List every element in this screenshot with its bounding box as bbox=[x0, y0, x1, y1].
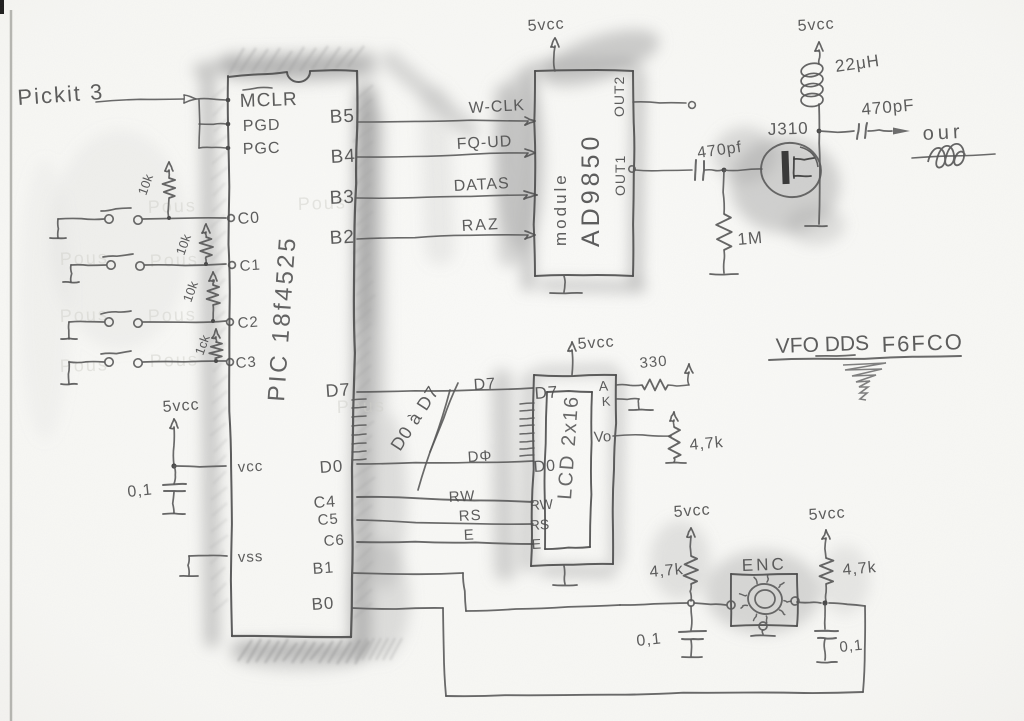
svg-text:E: E bbox=[531, 536, 541, 552]
svg-text:RW: RW bbox=[448, 488, 476, 506]
svg-text:5vcc: 5vcc bbox=[577, 333, 615, 353]
svg-text:RS: RS bbox=[458, 507, 482, 525]
svg-text:D7: D7 bbox=[473, 375, 497, 394]
svg-text:RS: RS bbox=[529, 516, 549, 533]
svg-text:C1: C1 bbox=[239, 257, 261, 275]
svg-text:K: K bbox=[601, 394, 611, 409]
svg-text:C0: C0 bbox=[237, 209, 261, 228]
svg-text:PGD: PGD bbox=[243, 117, 281, 135]
svg-text:Pous: Pous bbox=[59, 354, 109, 376]
svg-text:vcc: vcc bbox=[237, 458, 263, 476]
svg-text:0,1: 0,1 bbox=[636, 630, 663, 650]
svg-text:MCLR: MCLR bbox=[239, 89, 298, 112]
svg-text:vss: vss bbox=[238, 548, 264, 566]
svg-text:B2: B2 bbox=[329, 227, 355, 249]
svg-text:C5: C5 bbox=[317, 511, 339, 529]
svg-text:C3: C3 bbox=[235, 354, 257, 372]
svg-text:0,1: 0,1 bbox=[127, 481, 154, 501]
svg-text:AD9850: AD9850 bbox=[577, 133, 605, 247]
svg-text:OUT1: OUT1 bbox=[612, 155, 628, 196]
svg-text:Pous: Pous bbox=[147, 195, 197, 217]
svg-text:FQ-UD: FQ-UD bbox=[456, 133, 512, 153]
svg-text:A: A bbox=[598, 377, 609, 394]
svg-text:F6FCO: F6FCO bbox=[881, 329, 964, 357]
svg-text:C6: C6 bbox=[323, 532, 345, 550]
svg-text:C4: C4 bbox=[313, 493, 337, 512]
svg-text:VFO DDS: VFO DDS bbox=[775, 332, 869, 358]
svg-text:D0: D0 bbox=[533, 457, 557, 476]
svg-text:B1: B1 bbox=[312, 560, 335, 578]
svg-text:B0: B0 bbox=[311, 593, 335, 614]
svg-text:D0: D0 bbox=[319, 456, 344, 477]
svg-text:ENC: ENC bbox=[741, 554, 787, 575]
svg-text:5vcc: 5vcc bbox=[808, 504, 846, 524]
svg-text:1M: 1M bbox=[737, 228, 764, 249]
svg-text:our: our bbox=[922, 121, 964, 145]
svg-text:B5: B5 bbox=[329, 106, 355, 128]
svg-text:4,7k: 4,7k bbox=[689, 434, 725, 454]
svg-text:4,7k: 4,7k bbox=[649, 561, 685, 581]
svg-text:B4: B4 bbox=[330, 146, 356, 168]
svg-text:J310: J310 bbox=[767, 119, 809, 139]
svg-text:DATAS: DATAS bbox=[453, 175, 510, 195]
svg-text:OUT2: OUT2 bbox=[611, 76, 627, 117]
svg-text:Vo: Vo bbox=[593, 428, 611, 446]
svg-text:330: 330 bbox=[639, 353, 668, 372]
svg-text:W-CLK: W-CLK bbox=[468, 97, 525, 117]
svg-text:D7: D7 bbox=[534, 382, 559, 403]
svg-text:4,7k: 4,7k bbox=[842, 559, 878, 579]
svg-text:C2: C2 bbox=[237, 314, 259, 332]
svg-text:DΦ: DΦ bbox=[467, 447, 493, 466]
svg-text:B3: B3 bbox=[329, 187, 355, 209]
svg-text:5vcc: 5vcc bbox=[673, 501, 711, 521]
svg-text:5vcc: 5vcc bbox=[162, 396, 200, 416]
svg-text:5vcc: 5vcc bbox=[797, 15, 835, 35]
svg-text:module: module bbox=[551, 172, 570, 246]
svg-text:0,1: 0,1 bbox=[839, 637, 865, 656]
svg-text:E: E bbox=[463, 526, 475, 544]
svg-text:PGC: PGC bbox=[243, 140, 281, 158]
svg-text:RW: RW bbox=[529, 496, 554, 513]
svg-text:D7: D7 bbox=[325, 379, 351, 401]
svg-text:RAZ: RAZ bbox=[461, 216, 500, 235]
svg-text:5vcc: 5vcc bbox=[527, 15, 565, 35]
